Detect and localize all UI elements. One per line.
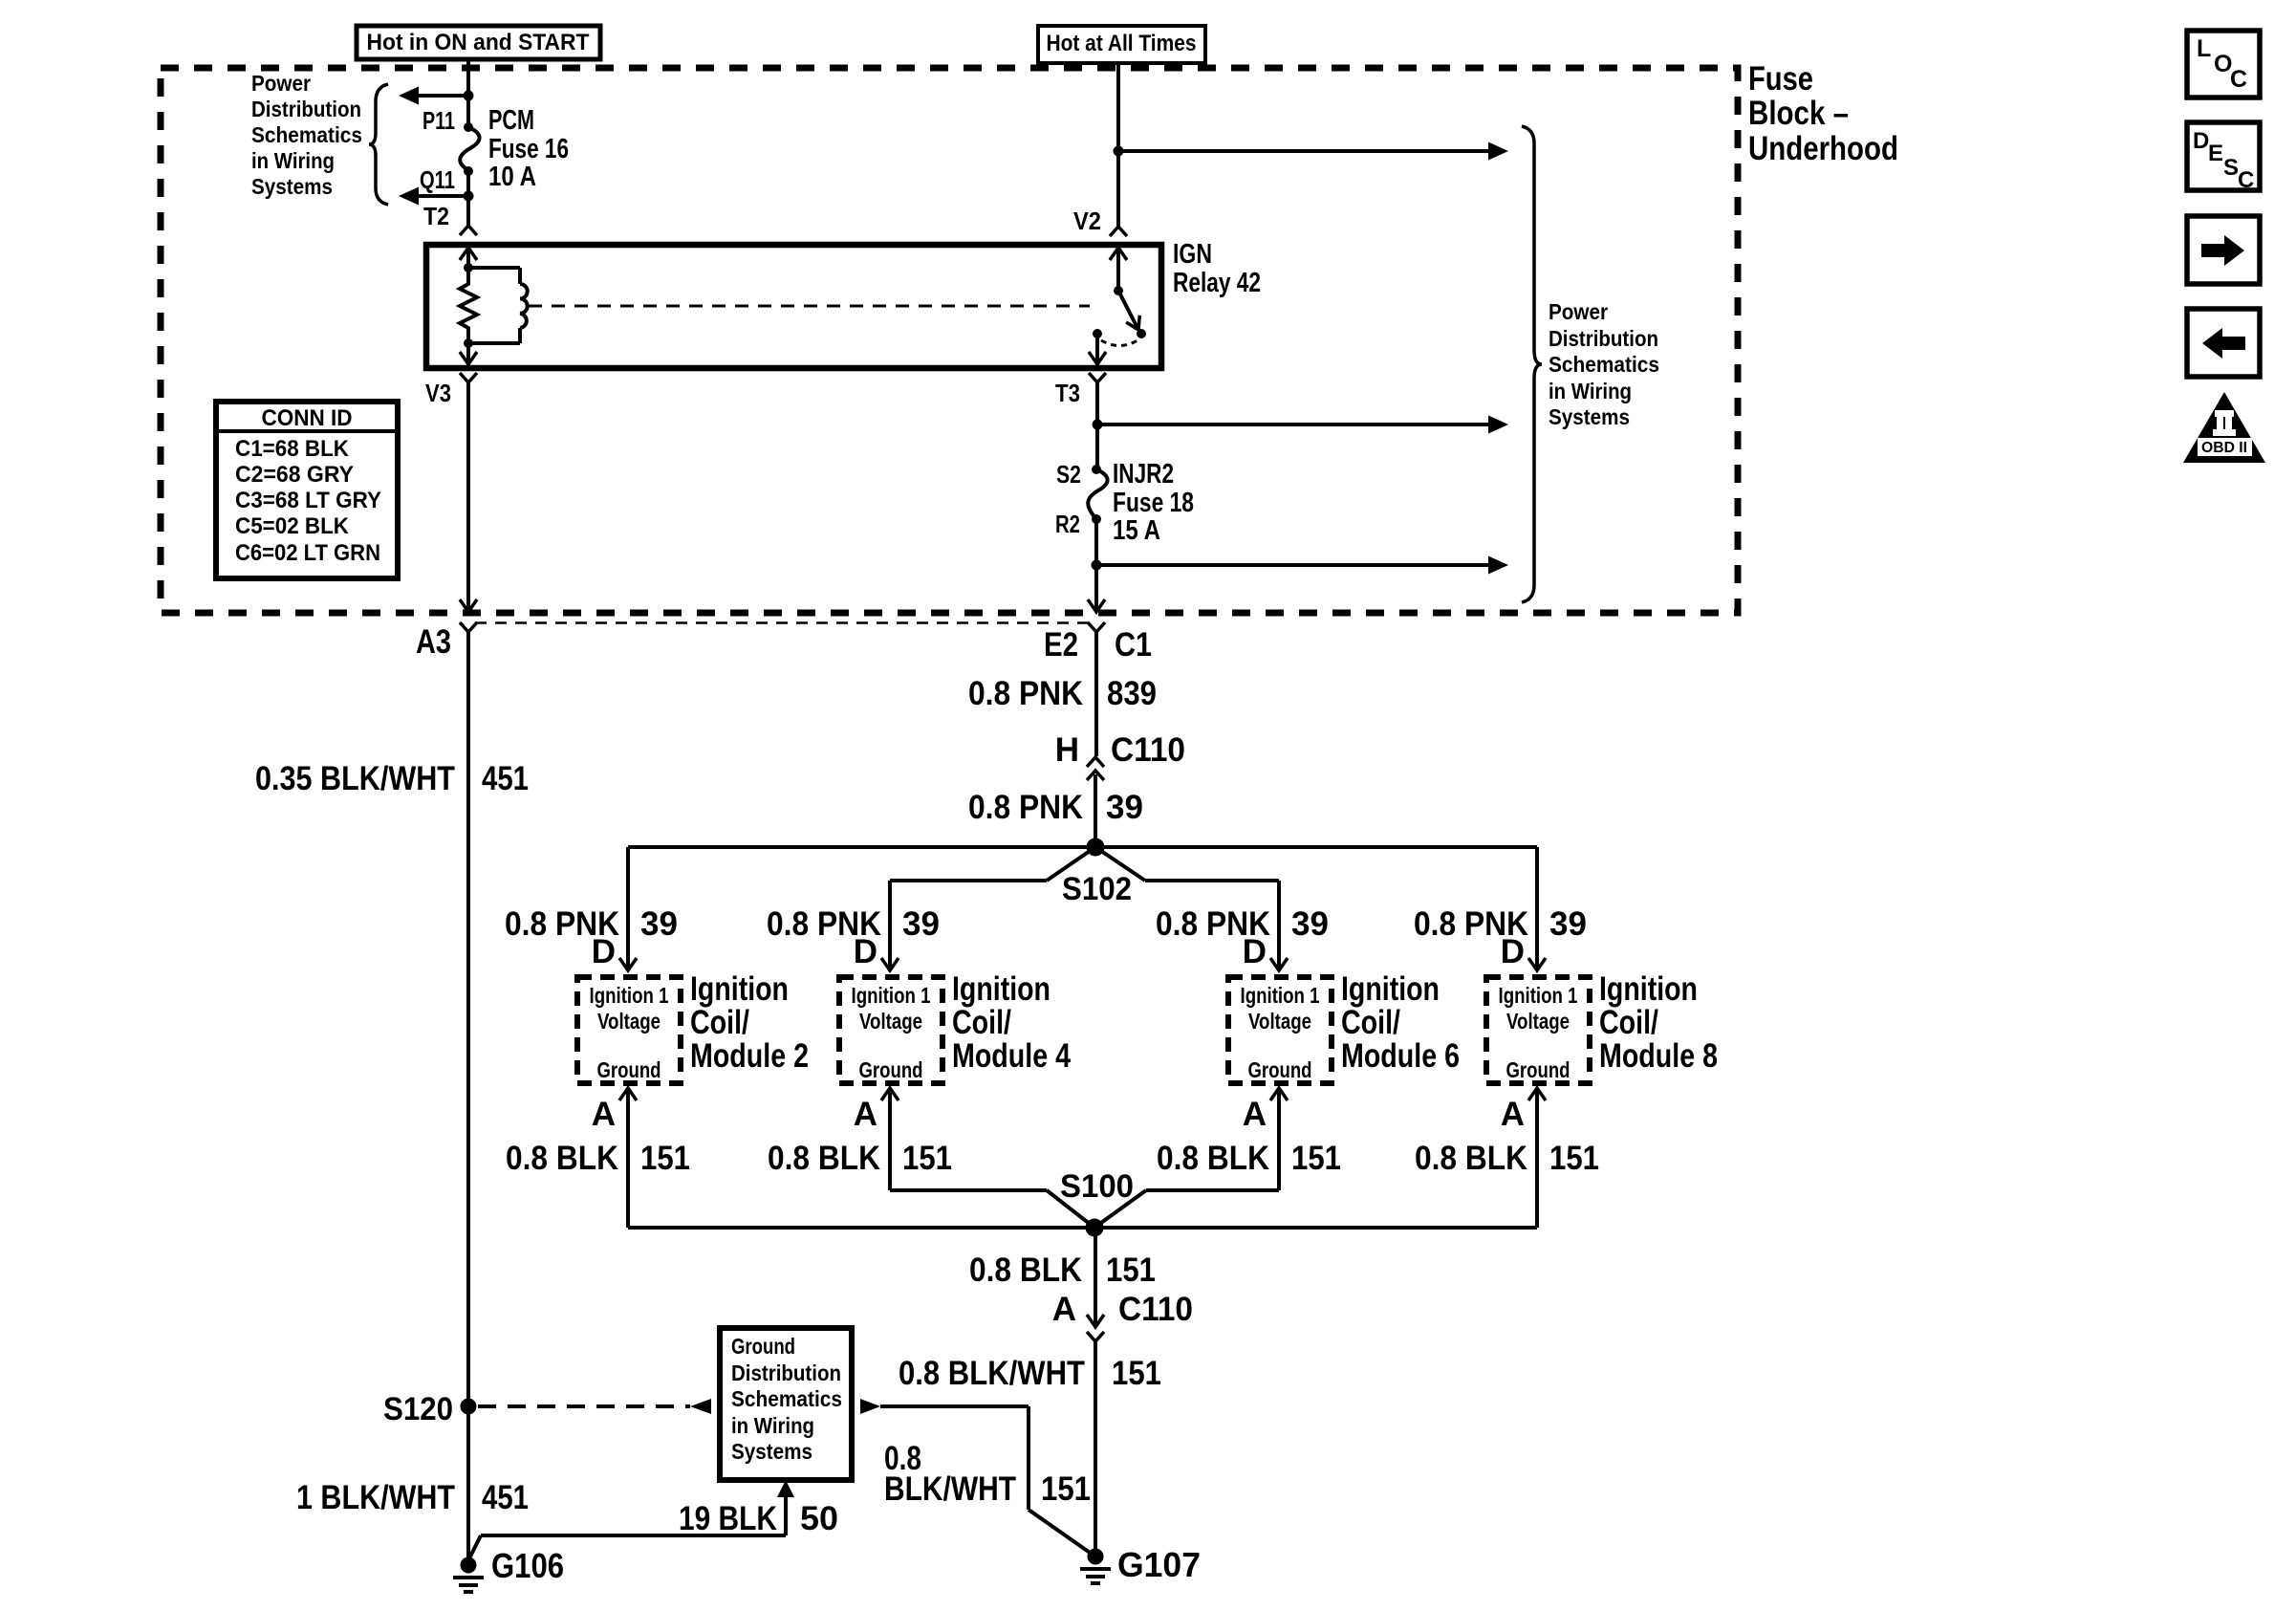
svg-text:0.35 BLK/WHT: 0.35 BLK/WHT	[255, 760, 455, 797]
svg-text:C: C	[2238, 167, 2254, 193]
svg-text:V3: V3	[425, 379, 451, 407]
module 3 ground wire	[1277, 1088, 1281, 1190]
wire E2 down	[1094, 632, 1098, 756]
svg-text:1 BLK/WHT: 1 BLK/WHT	[296, 1479, 455, 1516]
svg-text:S120: S120	[383, 1391, 453, 1427]
svg-text:C3=68 LT GRY: C3=68 LT GRY	[235, 488, 381, 513]
svg-text:19 BLK: 19 BLK	[679, 1500, 777, 1537]
wire T3 down	[1095, 382, 1099, 425]
arrowhead 19 BLK into box	[777, 1480, 794, 1497]
svg-text:Block –: Block –	[1748, 95, 1849, 132]
svg-text:R2: R2	[1055, 510, 1080, 538]
icon back arrow box	[2187, 309, 2260, 377]
svg-text:V2: V2	[1073, 207, 1101, 235]
connector C110 double chevron	[1087, 757, 1104, 767]
ignition coil module 3 feed wire	[1277, 881, 1281, 970]
svg-text:Voltage: Voltage	[1248, 1009, 1311, 1034]
svg-text:D: D	[854, 933, 877, 970]
svg-text:A: A	[592, 1096, 616, 1133]
svg-text:D: D	[1243, 933, 1267, 970]
svg-text:451: 451	[482, 1479, 529, 1516]
svg-text:S102: S102	[1062, 871, 1132, 907]
svg-text:Ground: Ground	[1248, 1057, 1312, 1082]
svg-text:Ground: Ground	[731, 1334, 795, 1359]
svg-text:151: 151	[1041, 1470, 1091, 1508]
junction dot line3	[1092, 560, 1102, 571]
svg-text:0.8 BLK: 0.8 BLK	[1415, 1140, 1527, 1177]
svg-text:39: 39	[640, 905, 678, 943]
svg-text:Module 6: Module 6	[1341, 1037, 1460, 1075]
svg-text:Ignition 1: Ignition 1	[852, 983, 931, 1008]
ignition coil module 2 feed wire	[888, 881, 892, 970]
svg-text:A3: A3	[416, 623, 451, 661]
wire S120 down to G106	[466, 1406, 470, 1558]
svg-text:151: 151	[1291, 1140, 1341, 1177]
svg-text:S: S	[2223, 155, 2239, 181]
svg-text:L: L	[2197, 35, 2211, 62]
svg-text:0.8 BLK/WHT: 0.8 BLK/WHT	[899, 1355, 1085, 1392]
svg-text:Schematics: Schematics	[731, 1386, 842, 1411]
junction dot T3 bus	[1093, 420, 1103, 430]
svg-text:INJR2: INJR2	[1113, 459, 1174, 490]
svg-text:Systems: Systems	[731, 1439, 812, 1464]
S102 junction dot	[1087, 838, 1105, 857]
S100 fan diagonals	[1047, 1190, 1094, 1228]
dot S2	[1092, 465, 1101, 474]
svg-text:OBD II: OBD II	[2201, 440, 2247, 456]
svg-text:Hot in ON and START: Hot in ON and START	[367, 30, 590, 55]
svg-text:IGN: IGN	[1173, 239, 1212, 270]
module 1 ground wire	[626, 1088, 630, 1228]
wire C110 to S102	[1094, 774, 1097, 847]
connector chevron V3	[460, 373, 477, 382]
bus line 2 to Power Distribution	[1097, 423, 1488, 426]
fuse F18 INJR2 Fuse 18 15A symbol	[1088, 469, 1107, 519]
dot R2	[1092, 514, 1101, 524]
svg-text:G107: G107	[1117, 1545, 1201, 1584]
relay coil bottom dot	[464, 338, 473, 348]
icon forward arrow box	[2187, 216, 2260, 284]
ignition coil module 1 dashed box	[577, 977, 681, 1083]
svg-text:Ignition 1: Ignition 1	[1241, 983, 1320, 1008]
wire Q11 to T2	[466, 171, 470, 226]
svg-text:451: 451	[482, 760, 529, 797]
S102 fan diagonals	[1047, 847, 1095, 881]
power label box "Hot at All Times"	[1038, 26, 1205, 63]
connector chevron C110 lower	[1087, 1332, 1104, 1341]
svg-text:Coil/: Coil/	[1341, 1004, 1400, 1041]
relay coil wire bottom arrow	[466, 343, 470, 365]
connector chevron V2	[1110, 227, 1127, 236]
relay control dashed line	[529, 305, 1090, 308]
svg-text:A: A	[1501, 1096, 1525, 1133]
relay switch dashed arc	[1101, 340, 1137, 346]
wire V3 down to A3	[466, 382, 470, 610]
svg-text:Power: Power	[1549, 299, 1608, 324]
CONN ID box	[216, 402, 398, 578]
svg-text:0.8 BLK: 0.8 BLK	[506, 1140, 618, 1177]
svg-text:CONN ID: CONN ID	[262, 405, 353, 431]
svg-text:50: 50	[800, 1500, 838, 1537]
relay resistor	[460, 268, 477, 343]
S102 bus lower	[890, 879, 1047, 882]
left brace	[369, 84, 388, 205]
svg-text:39: 39	[1549, 905, 1587, 943]
relay switch output arrow	[1095, 334, 1099, 365]
thin dashed harness boundary	[475, 621, 1089, 624]
svg-text:Coil/: Coil/	[1599, 1004, 1658, 1041]
relay box IGN Relay 42	[426, 245, 1161, 368]
svg-text:Ground: Ground	[597, 1057, 661, 1082]
relay coil top dot	[464, 263, 473, 272]
svg-text:39: 39	[902, 905, 940, 943]
svg-text:in Wiring: in Wiring	[731, 1413, 814, 1438]
svg-text:0.8 PNK: 0.8 PNK	[968, 789, 1083, 826]
svg-text:0.8 BLK: 0.8 BLK	[1157, 1140, 1269, 1177]
svg-text:in Wiring: in Wiring	[1549, 379, 1632, 403]
relay switch pivot dot	[1114, 286, 1123, 295]
connector chevron A3	[460, 622, 477, 632]
ignition coil module 4 dashed box	[1486, 977, 1590, 1083]
svg-text:Q11: Q11	[420, 165, 455, 194]
svg-text:G106: G106	[491, 1546, 564, 1585]
svg-text:Voltage: Voltage	[597, 1009, 661, 1034]
svg-text:Schematics: Schematics	[1549, 352, 1659, 377]
right brace	[1522, 126, 1542, 602]
svg-text:Distribution: Distribution	[1549, 326, 1658, 351]
svg-text:Module 8: Module 8	[1599, 1037, 1718, 1075]
dot Q11	[464, 166, 473, 176]
ignition coil module 2 dashed box	[839, 977, 942, 1083]
S100 junction dot	[1086, 1219, 1104, 1237]
svg-text:Power: Power	[251, 71, 311, 96]
svg-text:Underhood: Underhood	[1748, 130, 1898, 167]
svg-text:H: H	[1055, 731, 1079, 769]
S120 dashed wire	[478, 1404, 690, 1408]
module 2 ground wire	[888, 1088, 892, 1190]
fuse F16 PCM Fuse 16 10A symbol	[460, 127, 479, 170]
svg-text:151: 151	[902, 1140, 952, 1177]
svg-text:0.8 PNK: 0.8 PNK	[968, 675, 1083, 712]
svg-text:Hot at All Times: Hot at All Times	[1047, 31, 1197, 56]
fuse block dashed border	[161, 68, 1738, 613]
svg-text:839: 839	[1107, 675, 1157, 712]
ignition coil module 3 dashed box	[1228, 977, 1332, 1083]
svg-text:151: 151	[640, 1140, 690, 1177]
S120 junction dot	[461, 1399, 477, 1415]
svg-text:Ignition: Ignition	[1599, 970, 1698, 1008]
wire 19 BLK 50	[481, 1534, 786, 1537]
icon OBD II triangle	[2183, 392, 2265, 463]
left arrow 1 to Power Distribution Schematics	[419, 94, 468, 98]
svg-text:151: 151	[1549, 1140, 1599, 1177]
svg-text:D: D	[1501, 933, 1525, 970]
svg-text:S100: S100	[1060, 1168, 1134, 1205]
S102 bus upper	[628, 845, 1537, 849]
svg-text:E: E	[2208, 141, 2223, 166]
svg-text:Voltage: Voltage	[859, 1009, 922, 1034]
ignition coil module 1 feed wire	[626, 847, 630, 970]
svg-text:151: 151	[1112, 1355, 1161, 1392]
svg-text:39: 39	[1106, 789, 1143, 826]
svg-text:Fuse 16: Fuse 16	[488, 134, 569, 164]
wire A3 down to S120	[466, 632, 470, 1406]
svg-text:Distribution: Distribution	[731, 1361, 841, 1385]
svg-text:Systems: Systems	[251, 174, 333, 199]
svg-text:Schematics: Schematics	[251, 122, 362, 147]
svg-text:C110: C110	[1111, 731, 1185, 769]
svg-text:10 A: 10 A	[488, 162, 536, 192]
ignition coil module 4 feed wire	[1535, 847, 1539, 970]
svg-text:C: C	[2230, 66, 2247, 93]
module 4 ground wire	[1535, 1088, 1539, 1228]
svg-text:C5=02 BLK: C5=02 BLK	[235, 513, 350, 539]
svg-text:C110: C110	[1118, 1291, 1193, 1328]
svg-text:S2: S2	[1056, 460, 1081, 489]
relay switch contact dots	[1093, 329, 1102, 338]
ground G106	[461, 1557, 477, 1574]
S100 bus upper	[890, 1188, 1047, 1192]
junction dot 2	[464, 191, 474, 202]
svg-text:A: A	[854, 1096, 877, 1133]
ground distribution box	[720, 1328, 852, 1480]
svg-text:151: 151	[1106, 1252, 1156, 1289]
svg-text:E2: E2	[1044, 626, 1078, 664]
wire R2 down	[1094, 519, 1098, 610]
svg-text:PCM: PCM	[488, 105, 534, 136]
connector chevron E2-C1	[1088, 622, 1105, 632]
bus line 1 to Power Distribution	[1118, 149, 1488, 153]
svg-text:T3: T3	[1055, 379, 1080, 407]
relay switch arm	[1118, 291, 1138, 330]
svg-text:Distribution: Distribution	[251, 97, 361, 121]
S100 bus lower	[628, 1226, 1537, 1230]
wire from Hot in ON and START box	[466, 59, 470, 127]
svg-text:39: 39	[1291, 905, 1329, 943]
connector chevron T3	[1089, 373, 1106, 382]
arrow into engine harness	[1088, 599, 1105, 612]
svg-text:Ignition: Ignition	[1341, 970, 1440, 1008]
svg-text:Module 2: Module 2	[690, 1037, 809, 1075]
bus line 3 to Power Distribution	[1096, 563, 1488, 567]
relay coil wire top arrow	[466, 248, 470, 268]
svg-text:Ground: Ground	[1506, 1057, 1570, 1082]
svg-text:Ground: Ground	[859, 1057, 923, 1082]
svg-text:C6=02 LT GRN: C6=02 LT GRN	[235, 540, 380, 566]
svg-text:P11: P11	[422, 106, 455, 135]
svg-text:Coil/: Coil/	[952, 1004, 1011, 1041]
relay inductor parallel branch	[468, 266, 520, 270]
icon LOC box	[2187, 31, 2260, 98]
svg-text:D: D	[2193, 128, 2209, 154]
wire S100 down	[1094, 1228, 1097, 1327]
wire from Hot at All Times box	[1116, 63, 1120, 227]
svg-text:Ignition 1: Ignition 1	[590, 983, 669, 1008]
svg-text:A: A	[1052, 1291, 1076, 1328]
wire to G107	[1094, 1341, 1097, 1557]
svg-text:Module 4: Module 4	[952, 1037, 1071, 1075]
svg-text:Ignition: Ignition	[690, 970, 789, 1008]
arrowhead into ground distribution	[690, 1399, 711, 1414]
svg-text:T2: T2	[423, 202, 449, 230]
svg-text:in Wiring: in Wiring	[251, 148, 335, 173]
junction dot	[464, 91, 474, 101]
wire 0.8 BLK/WHT to G107	[880, 1404, 1029, 1408]
ground G107	[1088, 1549, 1104, 1565]
left arrow 2	[419, 194, 468, 198]
svg-text:0.8 BLK: 0.8 BLK	[969, 1252, 1082, 1289]
svg-text:C1=68 BLK: C1=68 BLK	[235, 436, 350, 462]
svg-text:Fuse 18: Fuse 18	[1113, 488, 1194, 518]
svg-text:C2=68 GRY: C2=68 GRY	[235, 462, 354, 488]
svg-text:Coil/: Coil/	[690, 1004, 749, 1041]
svg-text:0.8 BLK: 0.8 BLK	[768, 1140, 880, 1177]
relay switch input arrow	[1116, 248, 1120, 291]
svg-text:Voltage: Voltage	[1506, 1009, 1570, 1034]
svg-text:Ignition: Ignition	[952, 970, 1051, 1008]
svg-text:Relay 42: Relay 42	[1173, 268, 1261, 298]
svg-text:D: D	[592, 933, 616, 970]
icon DESC box	[2187, 122, 2260, 190]
svg-text:15 A: 15 A	[1113, 515, 1160, 546]
power label box "Hot in ON and START"	[357, 26, 600, 59]
wire to S2	[1095, 425, 1099, 469]
connector chevron T2	[460, 226, 477, 235]
svg-text:C1: C1	[1115, 626, 1152, 664]
junction dot on V2 wire	[1114, 146, 1124, 157]
arrowhead out of ground distribution	[860, 1399, 880, 1414]
svg-text:Ignition 1: Ignition 1	[1499, 983, 1578, 1008]
svg-text:Systems: Systems	[1549, 404, 1630, 429]
svg-text:A: A	[1243, 1096, 1267, 1133]
svg-text:Fuse: Fuse	[1748, 60, 1813, 98]
svg-text:BLK/WHT: BLK/WHT	[884, 1470, 1016, 1508]
dot P11	[464, 122, 473, 132]
